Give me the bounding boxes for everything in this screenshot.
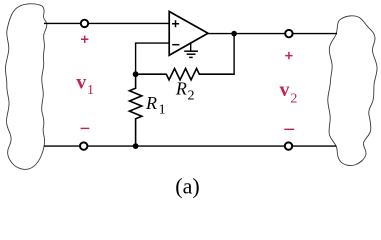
wire feedback vertical — [233, 34, 235, 75]
svg-text:1: 1 — [159, 103, 166, 118]
node bottom junction — [133, 143, 139, 149]
torn edge left — [5, 4, 46, 170]
resistor R2 — [139, 69, 235, 80]
label minus v1 polarity — [81, 127, 90, 129]
svg-text:v: v — [76, 71, 86, 93]
torn edge right — [328, 16, 377, 166]
wire inverting input — [136, 43, 170, 74]
svg-text:2: 2 — [188, 88, 195, 103]
wire top input — [44, 22, 169, 24]
svg-text:1: 1 — [87, 83, 94, 98]
resistor R1 — [129, 74, 141, 146]
terminal bottom-right — [285, 142, 292, 149]
wire bottom — [44, 145, 337, 147]
op-amp U1 — [169, 12, 208, 56]
svg-text:R: R — [175, 79, 187, 99]
label plus v2 polarity — [285, 52, 292, 59]
wire output — [208, 33, 337, 35]
op-amp minus input marking — [172, 44, 179, 46]
terminal bottom-left — [80, 142, 87, 149]
svg-text:R: R — [145, 93, 157, 113]
node output junction — [231, 31, 237, 37]
op-amp plus input marking — [172, 20, 179, 27]
svg-text:v: v — [280, 79, 290, 101]
label minus v2 polarity — [284, 128, 294, 130]
terminal top-left — [81, 20, 88, 27]
ground — [184, 43, 198, 57]
node junction R1 R2 — [133, 71, 139, 77]
svg-text:(a): (a) — [175, 173, 199, 198]
svg-text:2: 2 — [290, 91, 297, 106]
label plus v1 polarity — [81, 36, 88, 43]
terminal top-right — [285, 30, 292, 37]
